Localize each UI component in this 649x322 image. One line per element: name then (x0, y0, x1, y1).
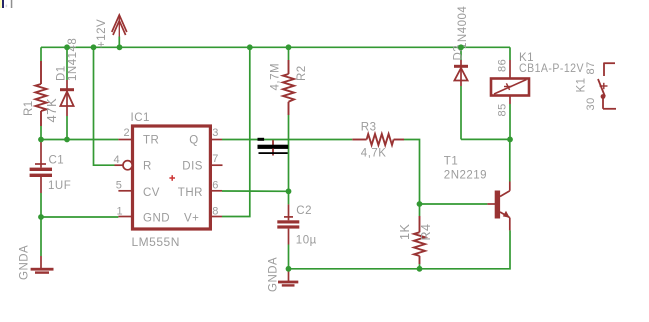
junction C2/ground net (286, 266, 292, 272)
wire: R1 branch top (from +12V rail down to R1) (40, 47, 42, 61)
net +12V: top horizontal wire (41, 46, 510, 48)
svg-text:GND: GND (143, 213, 170, 225)
svg-text:C2: C2 (296, 205, 312, 217)
capacitor C2 10u (277, 204, 299, 244)
relay coil K1 CB1A-P-12V (491, 47, 529, 139)
svg-text:D1: D1 (56, 65, 68, 81)
junction D2/relay/collector node (507, 137, 513, 143)
svg-text:+12V: +12V (96, 19, 108, 48)
wire: R1 bottom to TR node (40, 126, 42, 140)
wire: left ground drop (40, 217, 42, 256)
svg-text:8: 8 (212, 205, 219, 217)
wire: D2 bottom to relay/collector node (461, 138, 510, 140)
pin 5 CV stub (118, 190, 132, 192)
svg-text:86: 86 (497, 59, 509, 72)
svg-text:K1: K1 (576, 77, 588, 92)
wire: +12V arrow stub (118, 37, 120, 48)
ground GNDA (center) (278, 269, 298, 287)
svg-text:IC1: IC1 (131, 112, 150, 124)
svg-text:30: 30 (585, 97, 597, 110)
svg-text:1UF: 1UF (48, 180, 71, 192)
svg-text:Q: Q (189, 135, 198, 147)
svg-text:GNDA: GNDA (268, 257, 280, 292)
svg-text:3: 3 (212, 127, 219, 139)
junction base node (417, 201, 423, 207)
svg-text:R2: R2 (296, 65, 308, 81)
diode D2 1N4004 (454, 47, 468, 139)
svg-text:T1: T1 (444, 155, 458, 167)
svg-text:87: 87 (585, 61, 597, 74)
wire: R2 bottom to THR node (288, 115, 290, 191)
op-amp/timer IC1 LM555N body (133, 126, 211, 229)
junction reset branch/+12V rail (91, 44, 97, 50)
svg-text:85: 85 (497, 103, 509, 116)
wire: THR net (pin 6 to R2/C2 node) (222, 190, 289, 192)
junction D1/TR net (64, 137, 70, 143)
svg-text:4: 4 (114, 154, 121, 166)
svg-text:R1: R1 (23, 100, 35, 116)
svg-text:1K: 1K (398, 224, 412, 240)
wire: R3 to base node corner (404, 140, 420, 205)
pin 8 V+ stub (210, 216, 222, 218)
wire: TR net (R1/D1/C1 node to pin 2) (41, 139, 118, 141)
svg-text:THR: THR (178, 187, 203, 199)
svg-text:6: 6 (212, 179, 219, 191)
wire: R2 branch from +12V rail (288, 47, 290, 60)
junction THR node (286, 188, 292, 194)
pin 4 R stub and bubble (115, 164, 124, 166)
junction C1/GND net (38, 214, 44, 220)
resistor R1 47K (36, 61, 47, 126)
svg-text:TR: TR (143, 135, 159, 147)
junction R2 branch/+12V rail (286, 44, 292, 50)
svg-text:GNDA: GNDA (19, 245, 31, 280)
resistor R4 1K (414, 204, 425, 269)
wire: C2 bottom to ground node (288, 245, 290, 269)
junction R4/ground net (417, 266, 423, 272)
svg-text:C1: C1 (49, 155, 65, 167)
pin 1 GND stub (118, 216, 132, 218)
transistor T1 2N2219 (487, 139, 509, 230)
black capacitor overlay fragment on Q wire (258, 138, 289, 156)
svg-text:2N2219: 2N2219 (444, 170, 487, 182)
junction D2 branch/+12V rail (458, 44, 464, 50)
svg-text:R3: R3 (361, 122, 377, 134)
relay contact K1 (switch) (598, 63, 616, 109)
resistor R3 4,7K (352, 134, 404, 145)
wire: bottom ground net (289, 230, 511, 268)
svg-text:DIS: DIS (182, 160, 203, 172)
svg-text:1: 1 (117, 205, 124, 217)
junction R1/TR net (38, 137, 44, 143)
pin 3 Q stub (210, 139, 222, 141)
svg-text:5: 5 (116, 179, 123, 191)
resistor R2 4,7M (283, 60, 294, 115)
svg-text:CB1A-P-12V: CB1A-P-12V (519, 63, 584, 75)
pin 6 THR stub (210, 190, 222, 192)
wire: THR node down to C2 (288, 191, 290, 204)
wire: Q output net (pin 3 to R3) (222, 139, 352, 141)
svg-text:K1: K1 (519, 52, 534, 64)
diode D1 1N4148 (60, 47, 74, 139)
svg-text:V+: V+ (184, 213, 199, 225)
svg-text:4,7K: 4,7K (361, 147, 387, 159)
svg-text:R: R (143, 160, 152, 172)
wire: V+ pin8 to +12V rail (222, 47, 250, 216)
svg-text:1N4148: 1N4148 (67, 38, 79, 81)
svg-text:2: 2 (124, 127, 131, 139)
junction D1/+12V rail (64, 44, 70, 50)
svg-text:1N4004: 1N4004 (457, 6, 469, 49)
svg-text:CV: CV (143, 187, 160, 199)
IC1 plus mark (169, 175, 175, 181)
svg-text:10µ: 10µ (296, 235, 317, 247)
svg-text:7: 7 (212, 153, 219, 165)
capacitor C1 1UF (30, 140, 52, 218)
pin 2 TR stub (118, 139, 132, 141)
supply symbol +12V arrow (112, 15, 127, 37)
ground GNDA (left) (31, 256, 54, 274)
svg-text:LM555N: LM555N (132, 235, 180, 249)
window corner fragment icon (top-left) (0, 0, 12, 8)
pin 7 DIS stub (210, 164, 222, 166)
svg-text:47K: 47K (44, 98, 59, 123)
wire: GND net pin1 to C1 bottom (41, 216, 118, 218)
wire: base net (node to T1 base) (420, 203, 488, 205)
svg-text:4,7M: 4,7M (270, 63, 282, 91)
junction +12V symbol/rail (117, 44, 123, 50)
junction V+ branch/+12V rail (247, 44, 253, 50)
svg-text:R4: R4 (419, 224, 433, 241)
wire: reset (pin4) branch from +12V rail (94, 47, 115, 165)
